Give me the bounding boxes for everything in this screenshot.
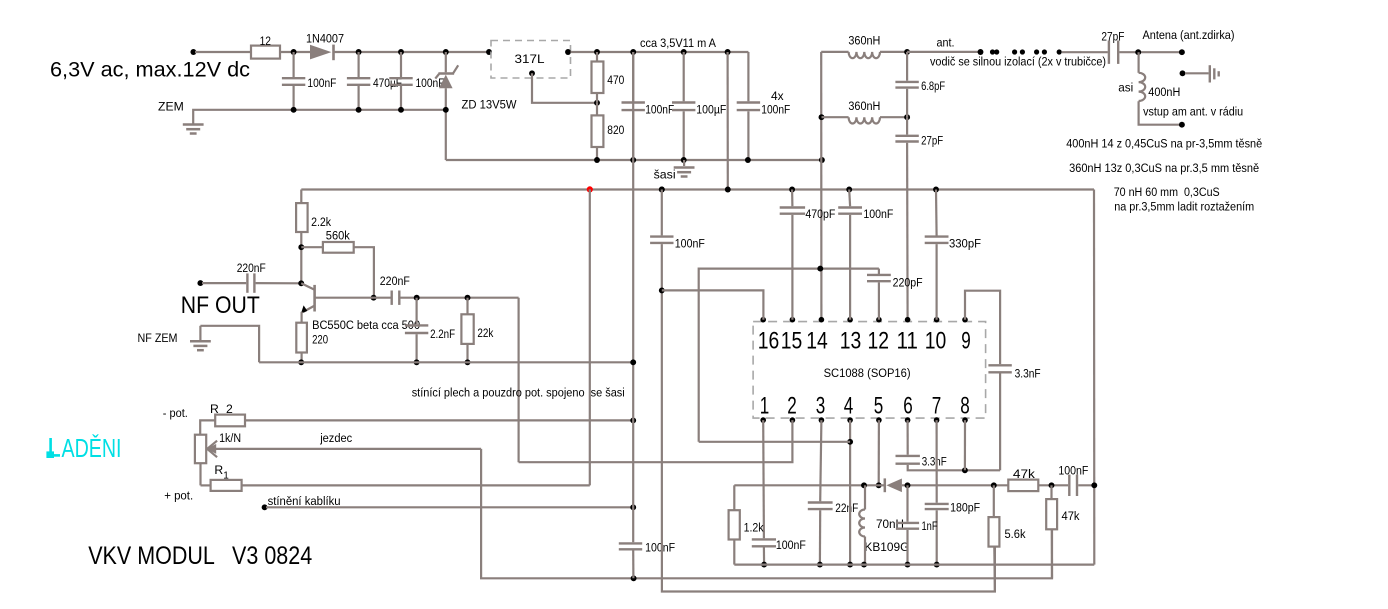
svg-text:15: 15 [781, 327, 803, 354]
capacitor 330pF [925, 190, 981, 320]
inductor 400nH [1118, 52, 1185, 127]
wire ant solid [907, 49, 983, 55]
svg-text:100nF: 100nF [776, 538, 806, 552]
svg-text:NF ZEM: NF ZEM [138, 331, 178, 345]
resistor 220 [296, 323, 328, 366]
svg-text:220nF: 220nF [380, 274, 410, 288]
wire antenna terminal [1119, 28, 1234, 55]
svg-text:šasi: šasi [654, 168, 676, 182]
svg-text:1N4007: 1N4007 [306, 31, 344, 45]
resistor 2.2k [296, 190, 332, 284]
svg-text:10: 10 [925, 327, 947, 354]
diode 1N4007 [306, 31, 344, 60]
svg-text:47k: 47k [1013, 467, 1036, 481]
text cca 3,5V 11mA [640, 36, 717, 50]
wire collector output down [517, 298, 519, 463]
capacitor 22nF [808, 420, 859, 567]
svg-text:1.2k: 1.2k [744, 521, 765, 535]
wire bottom rail [734, 563, 1094, 565]
zener diode ZD 13V5W [435, 52, 517, 112]
svg-text:Antena (ant.zdirka): Antena (ant.zdirka) [1143, 28, 1235, 42]
wire 317L out to rail [565, 49, 748, 55]
capacitor 220pF [867, 269, 923, 320]
inductor 360nH upper [821, 34, 910, 59]
wire tune up bus [589, 189, 591, 485]
svg-text:27pF: 27pF [1101, 29, 1124, 43]
svg-text:1k/N: 1k/N [219, 431, 241, 445]
svg-text:2.2k: 2.2k [311, 215, 332, 229]
svg-text:6: 6 [903, 392, 913, 419]
svg-text:+ pot.: + pot. [164, 488, 193, 502]
wire 317L adj [529, 70, 600, 105]
text coil note 2 [1069, 161, 1259, 175]
capacitor 220nF output [380, 274, 519, 305]
svg-text:12: 12 [260, 34, 272, 48]
text NF OUT [181, 292, 260, 319]
capacitor 27pF shunt [895, 117, 943, 320]
U1 pin numbers bottom [760, 392, 970, 419]
wire sasi rail [446, 157, 825, 163]
wire bus 662 [650, 187, 995, 592]
svg-text:470pF: 470pF [805, 207, 835, 221]
svg-text:180pF: 180pF [950, 501, 980, 515]
capacitor 470uF [347, 52, 402, 110]
svg-text:820: 820 [607, 123, 624, 137]
svg-text:ZD 13V5W: ZD 13V5W [462, 98, 517, 112]
svg-text:27pF: 27pF [921, 134, 943, 148]
text vodic se silnou izolaci [930, 54, 1106, 68]
wire pin9 loop [965, 291, 1000, 364]
capacitor 100nF series [1058, 464, 1097, 496]
inductor 70nH [859, 485, 904, 567]
svg-text:317L: 317L [515, 52, 545, 66]
wire ant dotted [990, 49, 1108, 54]
svg-text:100µF: 100µF [696, 102, 726, 116]
svg-text:ant.: ant. [937, 36, 955, 50]
svg-text:11: 11 [896, 327, 918, 354]
resistor 1.2k [729, 485, 765, 564]
ground NF ZEM [138, 326, 211, 350]
svg-text:14: 14 [806, 327, 828, 354]
svg-text:16: 16 [758, 327, 780, 354]
svg-text:100nF: 100nF [1058, 464, 1088, 478]
capacitor 470pF [780, 190, 836, 320]
svg-text:stínění kablíku: stínění kablíku [268, 494, 341, 508]
text power input [50, 58, 250, 82]
wire pin2 [519, 420, 793, 462]
op-amp U1 SC1088 box [753, 322, 986, 419]
text ant. [937, 36, 955, 50]
capacitor 3.3nF pin6 [896, 420, 1001, 473]
svg-text:100nF: 100nF [863, 207, 893, 221]
wire stineni kabliku [262, 494, 637, 510]
wire audio ground rail [259, 361, 633, 363]
svg-text:NF OUT: NF OUT [181, 292, 260, 319]
ground antenna [1180, 65, 1219, 82]
svg-text:220: 220 [312, 332, 328, 346]
svg-text:5: 5 [874, 392, 884, 419]
capacitor 100nF pin1 [752, 420, 806, 567]
svg-text:5.6k: 5.6k [1005, 527, 1027, 541]
text coil note 4 [1114, 199, 1254, 213]
svg-text:360nH 13z 0,3CuS na pr.3,5 mm: 360nH 13z 0,3CuS na pr.3,5 mm těsně [1069, 161, 1259, 175]
wire NF OUT terminal [197, 280, 246, 286]
svg-text:na pr.3,5mm ladit roztažením: na pr.3,5mm ladit roztažením [1114, 199, 1254, 213]
svg-text:220pF: 220pF [893, 275, 923, 289]
svg-text:vstup am ant. v rádiu: vstup am ant. v rádiu [1143, 105, 1243, 119]
text stinici plech [412, 385, 625, 399]
capacitor 100uF [672, 52, 726, 160]
svg-text:VKV MODUL V3 0824: VKV MODUL V3 0824 [88, 542, 312, 570]
wire V+ vertical link [726, 52, 728, 190]
svg-text:360nH: 360nH [848, 99, 880, 113]
svg-text:3: 3 [816, 392, 826, 419]
svg-text:470: 470 [607, 73, 624, 87]
capacitor 100nF filter [389, 52, 444, 110]
wire varicap line [734, 482, 1008, 488]
svg-text:1nF: 1nF [922, 519, 938, 533]
svg-text:560k: 560k [326, 228, 351, 242]
svg-text:vodič se silnou izolací (2x v: vodič se silnou izolací (2x v trubičce) [930, 54, 1106, 68]
svg-text:KB109G: KB109G [864, 540, 909, 554]
wire pin4 link [699, 441, 850, 443]
svg-text:jezdec: jezdec [319, 431, 352, 445]
svg-text:- pot.: - pot. [163, 406, 188, 420]
wire pin4 [847, 420, 853, 567]
capacitor 6.8pF [895, 52, 945, 117]
capacitor 2.2nF [405, 298, 455, 366]
svg-text:22nF: 22nF [835, 501, 858, 515]
resistor 5.6k [989, 485, 1027, 591]
svg-text:2: 2 [787, 392, 797, 419]
text - pot. [163, 406, 188, 420]
svg-text:stínící plech a pouzdro pot. s: stínící plech a pouzdro pot. spojeno se … [412, 385, 625, 399]
text LADENI [46, 433, 121, 463]
svg-text:22k: 22k [477, 326, 494, 340]
capacitor 100nF input [282, 52, 337, 110]
ground sasi [654, 160, 695, 182]
svg-text:12: 12 [868, 327, 890, 354]
svg-text:4x: 4x [771, 89, 784, 103]
diode KB109G [864, 478, 909, 554]
svg-text:7: 7 [932, 392, 942, 419]
svg-text:6.8pF: 6.8pF [921, 79, 945, 93]
svg-text:1: 1 [760, 392, 770, 419]
inductor 360nH lower [819, 99, 911, 124]
svg-text:360nH: 360nH [848, 34, 880, 48]
svg-text:BC550C beta cca 500: BC550C beta cca 500 [312, 318, 420, 332]
capacitor 180pF [925, 420, 980, 567]
ground ZEM [158, 100, 204, 134]
svg-text:asi: asi [1118, 81, 1133, 95]
wire pin8 [964, 420, 966, 470]
wire pin5 [876, 420, 882, 488]
U1 pin numbers top [758, 327, 971, 354]
wire jezdec down [481, 449, 1052, 581]
capacitor 100nF bus bottom [619, 541, 675, 555]
svg-text:100nF: 100nF [645, 102, 674, 116]
wire D1 to 317L [335, 49, 492, 55]
resistor 22k [461, 298, 494, 366]
svg-text:ADĚNI: ADĚNI [62, 433, 122, 463]
text coil note 3 [1114, 185, 1220, 199]
svg-text:3.3nF: 3.3nF [922, 454, 947, 468]
wire pin12 link [699, 266, 879, 442]
svg-text:220nF: 220nF [237, 261, 266, 275]
svg-text:ZEM: ZEM [158, 100, 184, 114]
wire V+ rail [301, 187, 1094, 193]
wire 360nH bus [820, 52, 822, 320]
svg-text:100nF: 100nF [307, 76, 336, 90]
svg-text:4: 4 [844, 392, 854, 419]
svg-text:8: 8 [960, 392, 970, 419]
svg-text:100nF: 100nF [761, 102, 790, 116]
svg-text:13: 13 [840, 327, 862, 354]
capacitor 4x 100nF [737, 52, 791, 160]
resistor 12 ohm [251, 34, 280, 58]
resistor R2 [200, 402, 636, 435]
resistor 47k series [1008, 467, 1068, 491]
svg-text:2.2nF: 2.2nF [430, 327, 455, 341]
capacitor 220nF input [237, 261, 302, 293]
capacitor 100nF pin13 [838, 190, 893, 320]
svg-text:R: R [214, 463, 223, 477]
svg-text:70 nH 60 mm 0,3CuS: 70 nH 60 mm 0,3CuS [1114, 185, 1220, 199]
wire centre bus 633 [630, 52, 636, 578]
resistor 47k shunt [1046, 485, 1080, 578]
svg-text:3.3nF: 3.3nF [1015, 367, 1041, 381]
text vstup am ant [1143, 105, 1243, 119]
wire input terminal to R1 [190, 49, 251, 55]
resistor 820 [592, 103, 625, 160]
potentiometer 1k/N [195, 431, 241, 485]
svg-text:6,3V ac, max.12V dc: 6,3V ac, max.12V dc [50, 58, 250, 82]
wire ZEM rail [193, 107, 449, 124]
svg-text:47k: 47k [1062, 509, 1081, 523]
svg-text:400nH 14 z 0,45CuS na pr-3,5mm: 400nH 14 z 0,45CuS na pr-3,5mm těsně [1066, 137, 1262, 151]
svg-text:9: 9 [961, 327, 971, 354]
node red junction [587, 186, 593, 192]
U1 pin dots bottom [760, 417, 967, 423]
capacitor 27pF series [1101, 29, 1124, 64]
regulator 317L [491, 41, 571, 79]
pot wiper jezdec [207, 431, 481, 457]
resistor 470 [592, 52, 625, 103]
U1 pin dots top [760, 317, 967, 323]
wire zener to sasi rail [445, 110, 447, 160]
resistor 560k [301, 228, 376, 300]
wire right bus [1093, 190, 1096, 565]
wire pin16 [662, 290, 764, 319]
wire base output [315, 297, 391, 299]
svg-text:100nF: 100nF [675, 237, 705, 251]
wire R1 to D1 [280, 49, 310, 55]
transistor BC550C Q1 [298, 280, 420, 332]
capacitor 100nF bus top [622, 52, 675, 160]
text + pot. [164, 488, 193, 502]
wire NF ZEM [200, 326, 259, 363]
svg-text:cca 3,5V11 m A: cca 3,5V11 m A [640, 36, 717, 50]
svg-text:330pF: 330pF [949, 237, 981, 251]
svg-text:SC1088 (SOP16): SC1088 (SOP16) [824, 366, 911, 380]
svg-text:400nH: 400nH [1148, 85, 1180, 99]
text VKV MODUL [88, 542, 312, 570]
capacitor 1nF [896, 485, 938, 567]
text coil note 1 [1066, 137, 1262, 151]
resistor R1 [201, 463, 590, 491]
capacitor 3.3nF right [988, 365, 1040, 470]
svg-text:100nF: 100nF [645, 541, 675, 555]
